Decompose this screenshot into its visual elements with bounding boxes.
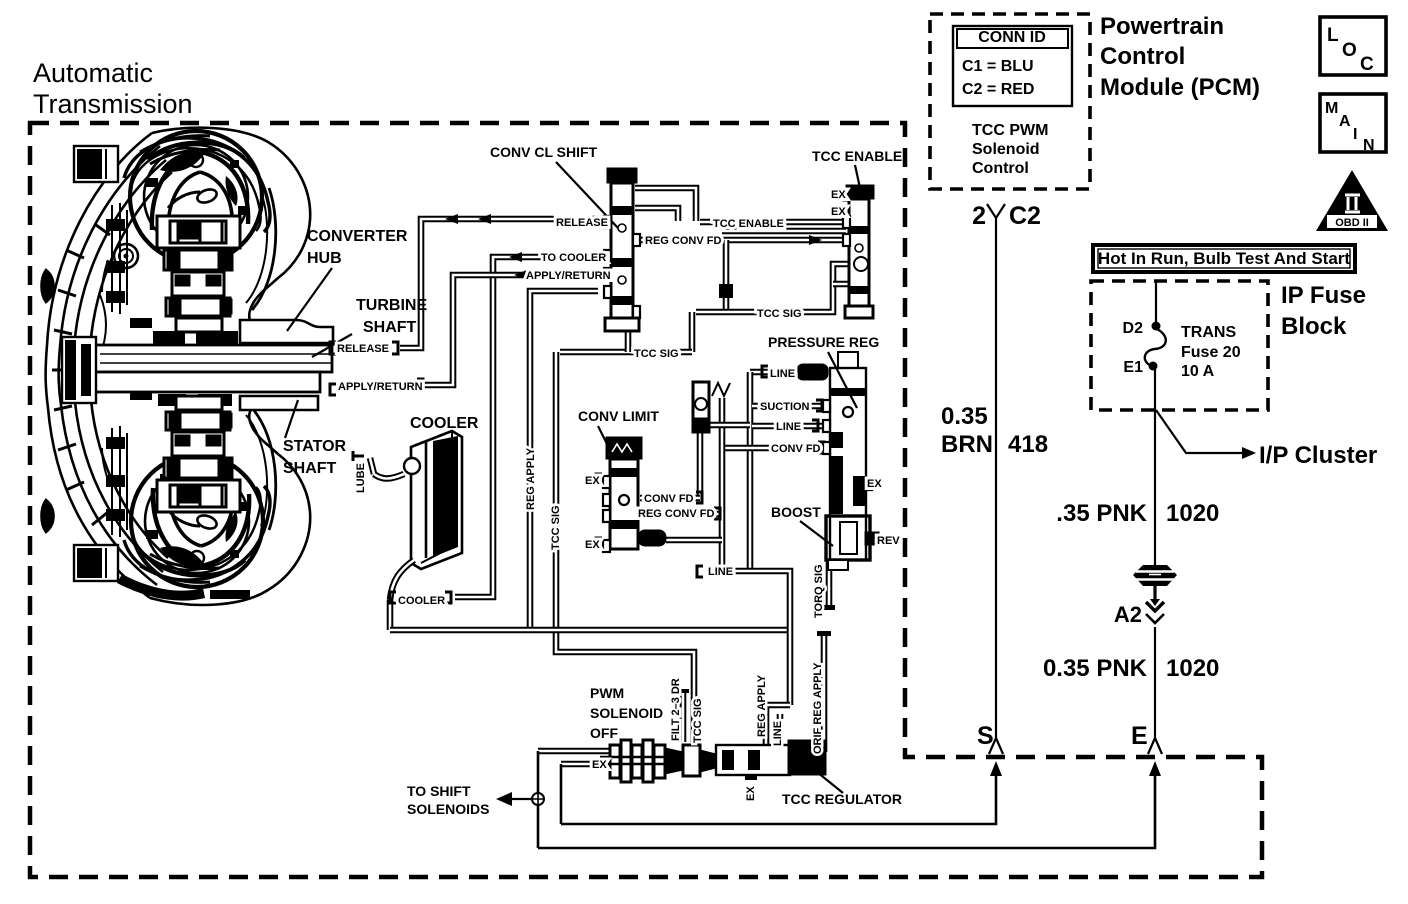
svg-text:2: 2: [972, 202, 986, 230]
wire conv-cl-shift top loop A: [635, 188, 696, 221]
svg-text:Automatic: Automatic: [33, 58, 153, 88]
wire tcc-sig elbow: [689, 312, 696, 352]
svg-text:LINE: LINE: [708, 566, 733, 578]
svg-text:Block: Block: [1281, 313, 1347, 340]
wire line stub: [752, 423, 828, 430]
wire fuse feed: [1155, 281, 1157, 322]
svg-text:TRANS: TRANS: [1181, 324, 1236, 341]
TCC REGULATOR valve: [665, 740, 826, 776]
svg-text:LINE: LINE: [776, 421, 801, 433]
svg-text:EX: EX: [585, 539, 600, 551]
svg-text:CONVERTER: CONVERTER: [307, 228, 408, 245]
release passage in shaft: [100, 354, 332, 363]
svg-text:0.35: 0.35: [941, 403, 988, 430]
wire S arrow riser: [561, 766, 996, 824]
wire IP cluster branch: [1156, 410, 1245, 453]
wire tcc-enable line2: [722, 228, 846, 235]
svg-text:SOLENOID: SOLENOID: [590, 705, 663, 721]
svg-text:TCC SIG: TCC SIG: [550, 505, 562, 550]
junction circle to shift solenoids: [532, 793, 544, 805]
svg-text:TCC SIG: TCC SIG: [757, 308, 802, 320]
svg-text:M: M: [1325, 100, 1338, 117]
svg-text:Fuse 20: Fuse 20: [1181, 344, 1241, 361]
wire to shift solenoids arrow: [500, 798, 531, 800]
svg-text:EX: EX: [745, 786, 757, 801]
wire reg-conv-fd drop: [723, 240, 730, 309]
pointer tcc regulator: [817, 772, 843, 793]
wire tcc-sig long vertical: [556, 352, 694, 742]
wire small valve down: [697, 433, 704, 498]
wire tcc-sig lower: [560, 349, 692, 356]
svg-text:E: E: [1131, 722, 1148, 750]
bracket cooler left: [390, 592, 396, 603]
bell radial ticks: [52, 225, 110, 525]
svg-text:L: L: [1327, 25, 1339, 46]
svg-text:Control: Control: [972, 160, 1029, 177]
wire A2 to E: [1154, 627, 1156, 740]
svg-text:A: A: [1339, 113, 1351, 130]
wire 418 BRN PCM to S: [995, 218, 997, 740]
wire tcc-enable line: [700, 219, 846, 226]
Hot In Run box: [1093, 245, 1355, 272]
converter torus bottom: [131, 455, 263, 587]
pointer converter hub: [287, 268, 332, 331]
wire fuse to bottom: [1154, 369, 1156, 574]
arrow to cooler: [509, 252, 522, 262]
wire to-cooler run: [455, 257, 608, 597]
svg-text:TCC REGULATOR: TCC REGULATOR: [782, 791, 902, 807]
svg-text:FILT 2–3 DR: FILT 2–3 DR: [670, 678, 682, 741]
arrowhead to shift solenoids: [496, 792, 512, 806]
bracket tcc enable ex2: [844, 207, 849, 217]
torque converter cross-section: [42, 128, 311, 605]
arrow release b: [478, 214, 491, 224]
bottom case dark band: [117, 574, 205, 601]
wire small valve cross: [702, 422, 750, 429]
svg-text:RELEASE: RELEASE: [337, 343, 389, 355]
tick filt top: [676, 689, 689, 693]
arrowhead IP cluster: [1242, 447, 1256, 459]
svg-text:I: I: [1353, 126, 1357, 143]
svg-text:E1: E1: [1123, 359, 1143, 376]
junction blob reg conv fd / tcc sig: [719, 284, 733, 298]
wire conv-fd stub: [724, 445, 828, 452]
cooler pipe to lube: [374, 474, 404, 479]
wire splice to A2: [1153, 586, 1156, 600]
svg-text:Solenoid: Solenoid: [972, 141, 1040, 158]
stator shaft: [95, 372, 320, 392]
svg-text:S: S: [977, 722, 994, 750]
svg-text:Powertrain: Powertrain: [1100, 13, 1224, 40]
svg-text:REG APPLY: REG APPLY: [756, 674, 768, 737]
svg-text:CONV FD: CONV FD: [644, 493, 694, 505]
bracket ex limit 1: [596, 474, 602, 485]
svg-text:HUB: HUB: [307, 250, 342, 267]
svg-text:TURBINE: TURBINE: [356, 297, 427, 314]
wire cooler return: [387, 600, 394, 630]
arrowhead S riser: [990, 761, 1002, 776]
tick ex regulator: [745, 776, 757, 780]
OBD II triangle: [1316, 170, 1388, 231]
connector A2 chevrons: [1150, 599, 1160, 606]
svg-text:CONV FD: CONV FD: [771, 443, 821, 455]
CONN ID table: [953, 26, 1072, 106]
wire line bottom horizontal: [706, 571, 790, 705]
svg-text:BOOST: BOOST: [771, 504, 821, 520]
svg-text:REG CONV FD: REG CONV FD: [638, 508, 714, 520]
stator support tube: [240, 396, 318, 410]
transmission boundary dashed box: [30, 123, 1262, 877]
wire reg-conv-fd limit stub: [640, 511, 720, 518]
svg-text:SHAFT: SHAFT: [283, 460, 337, 477]
svg-text:SUCTION: SUCTION: [760, 401, 810, 413]
pointer pressure reg: [828, 352, 857, 408]
svg-text:CONV CL SHIFT: CONV CL SHIFT: [490, 144, 598, 160]
wire release run: [400, 219, 608, 348]
svg-text:BRN: BRN: [941, 431, 993, 458]
clutch hub stack: [157, 216, 240, 512]
valve TCC ENABLE: [843, 185, 874, 318]
wire mid column vertical: [719, 398, 726, 571]
svg-text:IP Fuse: IP Fuse: [1281, 282, 1366, 309]
svg-text:APPLY/RETURN: APPLY/RETURN: [338, 381, 423, 393]
svg-text:SOLENOIDS: SOLENOIDS: [407, 801, 489, 817]
arrow release a: [445, 214, 458, 224]
svg-text:LINE: LINE: [770, 368, 795, 380]
small orifice valve: [693, 382, 730, 432]
pointer conv limit: [598, 426, 610, 450]
torus flecks: [130, 160, 248, 558]
svg-text:EX: EX: [867, 478, 882, 490]
splice symbol on PNK wire: [1133, 565, 1177, 586]
svg-text:Control: Control: [1100, 43, 1185, 70]
svg-text:10 A: 10 A: [1181, 363, 1215, 380]
wire E arrow riser: [538, 766, 1155, 848]
cooler pipe bottom: [390, 560, 414, 600]
svg-text:EX: EX: [592, 759, 607, 771]
PWM solenoid body: [600, 740, 665, 782]
svg-text:LUBE: LUBE: [355, 463, 367, 493]
svg-text:RELEASE: RELEASE: [556, 217, 608, 229]
svg-text:EX: EX: [831, 206, 846, 218]
svg-text:COOLER: COOLER: [410, 415, 479, 432]
bracket line top: [762, 366, 768, 377]
svg-text:APPLY/RETURN: APPLY/RETURN: [526, 270, 611, 282]
bracket release shaft right: [392, 342, 398, 354]
pointer conv cl shift: [556, 162, 618, 228]
wire fork S: [989, 738, 1003, 754]
svg-text:TO SHIFT: TO SHIFT: [407, 783, 471, 799]
svg-text:0.35 PNK: 0.35 PNK: [1043, 655, 1148, 682]
wire pressure-line vertical: [747, 372, 754, 571]
wire long line horizontal: [390, 627, 790, 634]
pointer stator shaft: [285, 400, 298, 438]
pointer tcc enable: [855, 165, 860, 188]
wire solenoid feed top: [538, 748, 613, 755]
svg-text:I/P Cluster: I/P Cluster: [1259, 442, 1377, 469]
svg-text:N: N: [1363, 137, 1375, 154]
svg-text:PWM: PWM: [590, 685, 624, 701]
wire solenoid box inner: [560, 764, 563, 824]
IP fuse block dashed box: [1091, 281, 1268, 410]
svg-text:1020: 1020: [1166, 500, 1219, 527]
turbine shaft: [95, 345, 332, 372]
svg-text:EX: EX: [831, 189, 846, 201]
bracket apply shaft right: [417, 379, 423, 390]
wire pressure-line feed top: [750, 369, 800, 376]
wire tcc-sig upper: [696, 264, 848, 312]
bracket line mid: [812, 420, 818, 431]
svg-text:Module (PCM): Module (PCM): [1100, 74, 1260, 101]
wire solenoid box left: [537, 751, 540, 848]
bearing top left: [114, 244, 138, 268]
arrow reg conv fd right: [809, 235, 822, 245]
svg-text:REG CONV FD: REG CONV FD: [645, 235, 721, 247]
svg-text:O: O: [1342, 40, 1357, 61]
wire solenoid feed bot: [561, 761, 613, 768]
svg-text:LINE: LINE: [772, 721, 784, 746]
svg-text:OBD II: OBD II: [1335, 217, 1369, 229]
wire conv-cl-shift top loop B: [635, 208, 678, 221]
wire apply-return run: [421, 275, 608, 385]
flange blocks: [153, 331, 185, 344]
valve CONV CL SHIFT: [604, 168, 640, 331]
cooler heat exchanger: [404, 431, 462, 569]
svg-text:ORIF REG APPLY: ORIF REG APPLY: [812, 662, 824, 754]
svg-text:EX: EX: [585, 475, 600, 487]
wire reg-apply lower: [766, 705, 790, 747]
shaft spline end: [62, 337, 96, 403]
bracket ex solenoid: [610, 758, 616, 769]
wire conv-limit bottom: [666, 537, 722, 544]
svg-text:C1 = BLU: C1 = BLU: [962, 58, 1034, 75]
tick orif reg apply top: [817, 631, 831, 636]
svg-text:TCC SIG: TCC SIG: [634, 348, 679, 360]
wire reg-conv-fd line: [635, 237, 846, 244]
svg-text:1020: 1020: [1166, 655, 1219, 682]
tick torq sig end: [821, 605, 835, 610]
svg-text:CONN ID: CONN ID: [978, 29, 1046, 46]
valve CONV LIMIT: [603, 437, 666, 552]
bracket line bottom: [697, 566, 703, 577]
svg-text:Transmission: Transmission: [33, 89, 193, 119]
wire line lower stub: [777, 714, 784, 747]
wire torq-sig stub: [826, 560, 833, 608]
svg-text:TCC SIG: TCC SIG: [692, 698, 704, 743]
top bolt block: [74, 146, 118, 182]
svg-text:418: 418: [1008, 431, 1048, 458]
svg-text:Hot In Run, Bulb Test And Star: Hot In Run, Bulb Test And Start: [1098, 249, 1350, 268]
PCM dashed box: [930, 14, 1090, 189]
wire fork E: [1148, 738, 1162, 754]
pump plates: [107, 203, 127, 537]
svg-text:TORQ SIG: TORQ SIG: [813, 564, 825, 618]
svg-text:REG APPLY: REG APPLY: [525, 447, 537, 510]
bracket conv fd reg: [818, 442, 824, 453]
pointer boost: [800, 521, 833, 546]
svg-text:TCC ENABLE: TCC ENABLE: [713, 218, 784, 230]
svg-text:SHAFT: SHAFT: [363, 319, 417, 336]
bracket lube: [353, 451, 364, 461]
arrowhead E riser: [1149, 761, 1161, 776]
fuse TRANS 20 symbol: [1152, 322, 1161, 331]
pointer turbine shaft: [312, 334, 352, 357]
bottom bolt block: [74, 545, 118, 581]
wire tcc-enable valve bottom: [833, 271, 860, 284]
wire conv-fd limit stub: [640, 495, 700, 502]
svg-text:PRESSURE REG: PRESSURE REG: [768, 334, 879, 350]
wire reg-apply vertical: [530, 291, 598, 630]
svg-text:.35 PNK: .35 PNK: [1056, 500, 1147, 527]
svg-text:C2: C2: [1009, 202, 1041, 230]
wire connector Y at C2: [987, 204, 1005, 218]
arrow apply return: [514, 270, 527, 280]
LOC box: [1320, 17, 1386, 75]
svg-text:COOLER: COOLER: [398, 595, 445, 607]
svg-text:D2: D2: [1123, 320, 1144, 337]
bracket ex pressure: [856, 477, 862, 488]
svg-text:REV: REV: [877, 535, 900, 547]
valve PRESSURE REG with BOOST section: [797, 352, 879, 570]
case top details: [140, 136, 220, 164]
bracket apply shaft left: [330, 384, 336, 395]
MAIN box: [1320, 94, 1386, 154]
bracket release shaft left: [330, 342, 336, 354]
bracket cooler right: [445, 592, 451, 603]
svg-text:TCC ENABLE: TCC ENABLE: [812, 148, 902, 164]
svg-text:C: C: [1360, 54, 1374, 75]
bracket tcc enable ex1: [844, 190, 849, 200]
converter torus top: [130, 131, 262, 263]
svg-text:C2 = RED: C2 = RED: [962, 81, 1034, 98]
bracket suction: [816, 400, 822, 411]
svg-text:CONV LIMIT: CONV LIMIT: [578, 408, 659, 424]
bracket conv fd limit: [696, 492, 702, 503]
bracket reg conv fd limit: [714, 508, 720, 519]
bracket ex limit 2: [596, 538, 602, 549]
wire orif-reg-apply: [821, 633, 828, 752]
converter hub tube: [240, 320, 333, 343]
svg-text:A2: A2: [1114, 602, 1142, 627]
svg-text:TO COOLER: TO COOLER: [541, 252, 606, 264]
wire filt stub: [680, 692, 687, 742]
wire conv-cl-shift bottom drop: [625, 330, 632, 352]
svg-text:OFF: OFF: [590, 725, 618, 741]
wire suction stub: [752, 403, 828, 410]
svg-text:TCC PWM: TCC PWM: [972, 122, 1048, 139]
svg-text:STATOR: STATOR: [283, 438, 347, 455]
